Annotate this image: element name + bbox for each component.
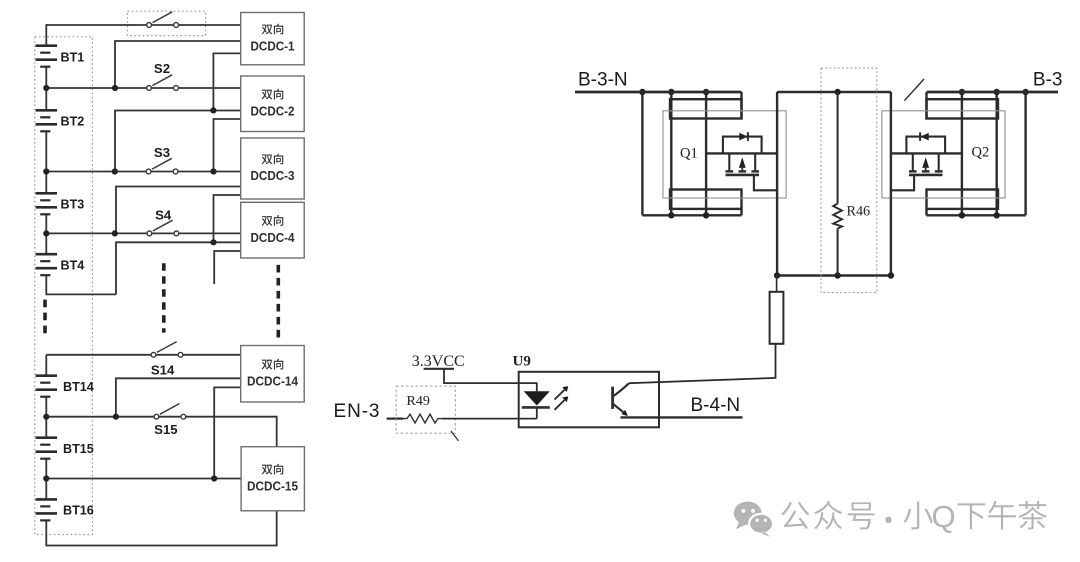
wire BT16 bottom rail to DCDC-15 bottom (46, 511, 276, 546)
junction rail v2 (703, 89, 709, 95)
wire EN-3 to R49 (387, 417, 403, 419)
mosfet contact tick drain (725, 170, 733, 172)
dashed box around R49 (396, 386, 455, 433)
label 双向 of DCDC-1 (262, 24, 284, 35)
body diode triangle (739, 133, 747, 141)
resistor R46 leads (837, 92, 839, 276)
wire DCDC-4 mid terminal to node4 (116, 242, 241, 294)
junction center bottom left (774, 272, 780, 278)
svg-text:DCDC-14: DCDC-14 (247, 374, 298, 388)
slash mark at Q2 (904, 79, 924, 101)
junction rail outer (639, 89, 645, 95)
light arrow 1 (555, 390, 565, 400)
junction bottom v2 (703, 212, 709, 218)
wire node13 row S14 (46, 354, 240, 356)
wire B-3-N rail (575, 91, 742, 94)
MOSFET module Q1 (639, 89, 786, 276)
junction center bottom R46 (834, 272, 840, 278)
label 双向 of DCDC-15 (262, 464, 284, 475)
wire DCDC-4 low terminal stub (214, 251, 241, 284)
svg-text:DCDC-3: DCDC-3 (251, 169, 295, 183)
svg-text:BT3: BT3 (61, 198, 85, 212)
wire center top (777, 91, 891, 93)
optocoupler U9 box (519, 372, 659, 428)
terminal plate top (670, 99, 742, 118)
power bar 3.3VCC (424, 368, 454, 370)
stray diagonal mark (451, 431, 459, 441)
dashed box around switch S1 (128, 11, 206, 35)
svg-text:Q2: Q2 (972, 145, 990, 161)
wire shunt top stub (776, 276, 778, 292)
label 双向 of DCDC-4 (262, 215, 284, 226)
wire B-3 rail (927, 91, 1059, 94)
wire node2 row S3 (46, 171, 240, 173)
wire mosfet bus (706, 152, 777, 154)
svg-text:BT15: BT15 (63, 442, 94, 456)
terminal plate bottom (670, 190, 742, 209)
continuation dashes DCDC column (276, 265, 280, 338)
svg-text:BT2: BT2 (61, 114, 85, 128)
label 双向 of DCDC-14 (262, 359, 284, 370)
svg-text:B-4-N: B-4-N (691, 395, 741, 416)
junction node2 on battery column (43, 168, 49, 174)
mosfet body arrow (739, 157, 746, 168)
mosfet contact tick source (751, 170, 759, 172)
junction rail v1 (668, 89, 674, 95)
svg-text:S2: S2 (154, 61, 170, 76)
watermark wechat icon big bubble (734, 502, 762, 525)
battery BT16 (36, 499, 57, 520)
wire node3 row S4 (46, 232, 240, 234)
wire rail end drop (740, 92, 742, 119)
dashed enclosure around battery stack (35, 37, 93, 535)
svg-text:B-3: B-3 (1033, 70, 1063, 91)
resistor R49 zigzag (403, 414, 442, 423)
battery BT1 (36, 46, 57, 67)
DCDC converter DCDC-3 box (241, 138, 305, 199)
svg-text:S4: S4 (155, 208, 172, 223)
wire paralleled vertical 1 (670, 92, 672, 215)
svg-text:BT16: BT16 (63, 504, 94, 518)
mosfet source stub (754, 153, 756, 170)
phototransistor bar (611, 387, 614, 409)
wire battery column segments (45, 67, 47, 500)
switch S4 (147, 220, 179, 236)
junction DCDC-3 low wire on DCDC-4 mid wire (210, 239, 216, 245)
svg-text:BT4: BT4 (61, 259, 85, 273)
mosfet drain stub (728, 153, 730, 170)
wire gate lead (754, 176, 777, 190)
phototransistor emitter (613, 404, 627, 415)
continuation dashes switch column (162, 263, 166, 332)
mosfet contact tick body (739, 170, 747, 172)
wire 3.3VCC to U9 anode (444, 369, 519, 383)
svg-text:DCDC-4: DCDC-4 (251, 231, 295, 245)
wire DCDC-3 low terminal down (214, 195, 241, 242)
wire node14 row S15 into DCDC-15 top (46, 417, 276, 447)
watermark middle dot (885, 517, 891, 523)
body diode loop (723, 137, 762, 154)
wire DCDC-1 mid terminal to node1 (115, 41, 241, 88)
watermark text 小Q下午茶 (904, 501, 933, 529)
wire gate vertical (776, 92, 778, 276)
junction node1 on battery column (43, 85, 49, 91)
wire DCDC-2 low terminal down to node2 (214, 119, 241, 172)
junction DCDC-1 low wire on DCDC-2 mid wire (210, 107, 216, 113)
svg-text:Q1: Q1 (680, 146, 698, 162)
svg-text:DCDC-2: DCDC-2 (251, 104, 295, 118)
wire source bottom bar (642, 214, 741, 216)
wire node15 row into DCDC-15 left (46, 478, 241, 480)
junction node15 on battery column (43, 475, 49, 481)
battery BT3 (36, 193, 57, 214)
junction node14 with DCDC-14 mid wire (113, 414, 119, 420)
battery BT14 (36, 376, 57, 397)
svg-text:B-3-N: B-3-N (578, 70, 628, 91)
battery BT2 (36, 110, 57, 131)
mosfet body arrow stem (741, 168, 743, 172)
svg-text:R49: R49 (407, 394, 430, 409)
LED triangle (524, 391, 550, 405)
label 双向 of DCDC-2 (262, 89, 284, 100)
wire node0 top rail from BT1 plus terminal through S1 to DCDC-1 (46, 25, 240, 46)
resistor R46 zigzag (833, 204, 842, 229)
body diode cathode bar (747, 132, 749, 141)
wire DCDC-3 mid terminal to node3 (116, 187, 241, 234)
svg-text:DCDC-15: DCDC-15 (247, 479, 298, 493)
wire DCDC-1 low terminal down (213, 53, 240, 110)
mosfet channel bar (726, 174, 760, 177)
svg-text:S14: S14 (151, 362, 175, 377)
switch S14 (151, 342, 183, 358)
wire DCDC-14 low terminal down to node15 (214, 387, 241, 478)
continuation dashes battery column (43, 300, 47, 336)
wire R49 to U9 cathode (442, 418, 537, 420)
wire paralleled vertical 2 (705, 92, 707, 215)
wire node1 row S2 (46, 87, 240, 89)
junction center top R46 (834, 89, 840, 95)
MOSFET module Q2 mirrored (882, 89, 1029, 276)
shunt resistor body (770, 292, 784, 344)
junction center bottom right (888, 272, 894, 278)
junction node1 with DCDC-1 mid wire (112, 85, 118, 91)
battery BT4 (36, 254, 57, 275)
switch S1 (147, 12, 179, 28)
emitter arrowhead (622, 410, 628, 416)
svg-text:U9: U9 (513, 354, 531, 370)
switch S2 (147, 75, 179, 91)
wire shunt to collector (629, 344, 776, 383)
svg-text:BT1: BT1 (61, 50, 85, 64)
wire DCDC-14 mid terminal to node14 (116, 378, 241, 416)
switch S3 (146, 158, 178, 174)
junction node3 with DCDC-3 mid wire (112, 230, 118, 236)
junction node15 with DCDC-14 low wire (211, 475, 217, 481)
wire BT4 bottom to node4 riser (46, 275, 116, 294)
wire center bottom (777, 274, 891, 276)
svg-text:BT14: BT14 (63, 380, 94, 394)
dashed box around R46 (821, 68, 877, 293)
wire B-4-N emitter (621, 416, 743, 418)
DCDC converter DCDC-15 box (241, 447, 304, 511)
DCDC converter DCDC-4 box (241, 202, 305, 258)
DCDC converter DCDC-2 box (241, 76, 305, 132)
junction node2 with DCDC-2 low wire (210, 168, 216, 174)
LED cathode bar (522, 406, 550, 409)
label 双向 of DCDC-3 (262, 154, 284, 165)
svg-text:EN-3: EN-3 (334, 401, 381, 422)
watermark wechat icon small bubble (749, 514, 773, 534)
svg-text:3.3VCC: 3.3VCC (412, 353, 465, 370)
wire bottom rect drop (740, 209, 742, 215)
junction node3 on battery column (43, 230, 49, 236)
DCDC converter DCDC-1 box (241, 13, 305, 65)
light arrow 2 (555, 400, 565, 410)
junction node2 with DCDC-2 mid wire (112, 168, 118, 174)
LED cathode lead (536, 407, 538, 418)
wire drain vertical outer (641, 92, 643, 215)
switch S15 (154, 404, 186, 420)
svg-text:S15: S15 (154, 422, 177, 437)
module outline box (663, 111, 786, 198)
battery BT15 (36, 438, 57, 459)
watermark text 公众号 (781, 502, 809, 529)
svg-text:R46: R46 (847, 204, 871, 220)
junction node14 on battery column (43, 414, 49, 420)
DCDC converter DCDC-14 box (241, 346, 305, 403)
junction bottom v1 (668, 212, 674, 218)
wire DCDC-2 mid terminal to node2 (115, 111, 241, 172)
svg-text:S3: S3 (154, 145, 170, 160)
LED anode lead (519, 383, 537, 391)
phototransistor collector (613, 383, 629, 396)
svg-text:DCDC-1: DCDC-1 (251, 39, 295, 53)
svg-text:Q: Q (932, 499, 956, 534)
